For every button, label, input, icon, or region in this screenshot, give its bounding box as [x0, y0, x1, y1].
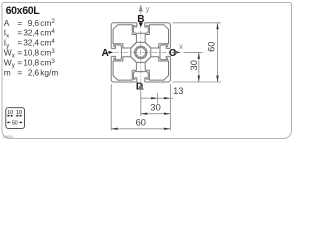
svg-text:10: 10	[16, 110, 22, 116]
core octagon	[131, 42, 151, 62]
svg-text:kg/m: kg/m	[40, 67, 58, 77]
T-slot right	[160, 45, 170, 60]
svg-text:10,8: 10,8	[23, 48, 39, 58]
T-slot top	[133, 23, 148, 33]
label B arrow	[139, 22, 143, 27]
dim 60 right arrows	[216, 23, 218, 30]
svg-text:13: 13	[173, 86, 183, 96]
modular grid icon box	[6, 108, 25, 129]
profile drawing	[111, 23, 170, 82]
svg-text:32,4: 32,4	[23, 28, 39, 38]
dimension 60 bottom line	[111, 128, 170, 130]
icon dim arrows under 10s	[7, 115, 21, 116]
dim 30 bottom arrows	[141, 113, 148, 115]
outer contour top-left	[111, 23, 137, 49]
label A arrow	[109, 51, 114, 54]
dimension 60 right line	[217, 23, 219, 82]
extension line right middle (x axis level)	[184, 51, 203, 53]
extension line right top	[173, 22, 222, 24]
svg-text:A: A	[4, 18, 10, 28]
svg-text:2,6: 2,6	[28, 67, 40, 77]
outer contour bottom-right	[145, 56, 171, 82]
svg-text:30: 30	[150, 103, 160, 113]
svg-text:60: 60	[136, 118, 146, 128]
svg-text:C: C	[169, 48, 177, 59]
svg-text:32,4: 32,4	[23, 38, 39, 48]
T-slot left	[111, 45, 121, 60]
vertical centerline (y axis)	[140, 12, 142, 116]
svg-text:30: 30	[189, 60, 199, 70]
svg-text:=: =	[17, 48, 22, 58]
dim 13 arrows	[151, 97, 158, 99]
cavity top-left	[113, 25, 136, 48]
card border frame	[2, 3, 292, 139]
cavity top-right	[145, 25, 168, 48]
dimension 30 right line	[198, 52, 200, 82]
svg-text:=: =	[17, 38, 22, 48]
dim 30 right arrows	[198, 52, 200, 59]
cavity bottom-left	[113, 57, 136, 80]
svg-text:10,8: 10,8	[23, 57, 39, 67]
svg-text:=: =	[17, 57, 22, 67]
extension line bottom left edge	[110, 84, 112, 131]
svg-text:19459: 19459	[3, 135, 13, 139]
extension line bottom center	[140, 92, 142, 116]
svg-text:=: =	[17, 67, 22, 77]
icon 50 outward arrows	[7, 122, 22, 123]
outer contour bottom-left	[111, 56, 137, 82]
y axis arrow	[139, 4, 143, 11]
svg-text:=: =	[17, 28, 22, 38]
x axis arrow	[174, 50, 181, 54]
central bore thread scallop	[136, 47, 146, 58]
central bore outer circle	[135, 46, 148, 59]
dimension 30 bottom line	[141, 113, 171, 115]
extension line 13	[157, 93, 159, 104]
svg-text:60x60L: 60x60L	[6, 5, 41, 17]
svg-text:50: 50	[12, 120, 18, 126]
outer contour top-right	[145, 23, 171, 49]
dimension 13 line	[141, 97, 173, 99]
dim 60 bottom arrows	[111, 128, 118, 130]
extension line bottom right edge	[169, 84, 171, 131]
svg-text:60: 60	[207, 42, 217, 52]
svg-text:9,6: 9,6	[28, 18, 40, 28]
extension line right bottom	[173, 81, 222, 83]
T-slot bottom	[133, 72, 148, 82]
svg-text:m: m	[4, 67, 11, 77]
cavity bottom-right	[145, 57, 168, 80]
svg-text:A: A	[102, 48, 110, 59]
svg-text:10: 10	[7, 110, 13, 116]
label D arrow	[138, 83, 144, 90]
horizontal centerline (x axis)	[104, 51, 181, 53]
svg-text:=: =	[17, 18, 22, 28]
